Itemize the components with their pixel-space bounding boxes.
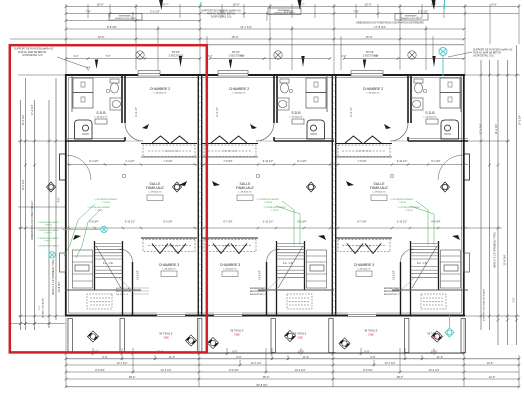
svg-text:2'-4 1/2": 2'-4 1/2" <box>125 160 134 163</box>
svg-text:L-19 20x17.5: L-19 20x17.5 <box>239 192 253 194</box>
svg-text:L-19 20x17.5: L-19 20x17.5 <box>149 192 163 194</box>
svg-text:DRAINS SOUS PATIO: DRAINS SOUS PATIO <box>115 17 136 20</box>
svg-text:(VOIR DETAIL S-5): (VOIR DETAIL S-5) <box>22 54 43 57</box>
unit 3 interior <box>334 75 468 318</box>
svg-text:CHAMBRE 3: CHAMBRE 3 <box>354 263 374 267</box>
unit top dim row (56 1/2 - 2 sections) <box>65 57 202 60</box>
svg-text:9'-6": 9'-6" <box>236 355 241 359</box>
dimension texts: top rows <box>85 2 497 39</box>
svg-text:28'-0": 28'-0" <box>129 375 136 379</box>
dimension scaffold: right columns <box>480 60 483 330</box>
svg-text:L-19 20x17.5: L-19 20x17.5 <box>95 116 109 118</box>
svg-text:9'-0": 9'-0" <box>232 349 237 353</box>
svg-text:24'-3 3/4": 24'-3 3/4" <box>519 115 522 125</box>
svg-text:1 lav. 12" + 1 lin.: 1 lav. 12" + 1 lin. <box>165 246 180 248</box>
svg-text:TYPE A: TYPE A <box>398 201 406 204</box>
svg-text:14'-7 1/2": 14'-7 1/2" <box>251 361 262 365</box>
svg-text:MEMBRANE +: MEMBRANE + <box>405 15 420 18</box>
svg-text:CME: CME <box>431 337 437 340</box>
svg-text:14'-7 1/2": 14'-7 1/2" <box>117 361 128 365</box>
green notes left margin <box>37 222 59 248</box>
room labels <box>95 87 438 271</box>
svg-text:CME: CME <box>368 334 374 337</box>
svg-text:12'-0": 12'-0" <box>489 375 496 379</box>
svg-text:11'-2 1/4": 11'-2 1/4" <box>21 115 25 126</box>
svg-text:11'-2 1/4": 11'-2 1/4" <box>494 124 498 135</box>
left wall lower window bay <box>60 253 66 272</box>
svg-text:11'-6": 11'-6" <box>303 355 309 359</box>
svg-text:5'-10 1/2": 5'-10 1/2" <box>125 221 136 224</box>
svg-text:8'-7 3/4": 8'-7 3/4" <box>357 221 366 224</box>
svg-text:15'-0": 15'-0" <box>231 35 238 39</box>
svg-text:1 lav. 12" + 1 lin.: 1 lav. 12" + 1 lin. <box>223 246 238 248</box>
svg-text:MUR 10'-6 1/2" (PANNEAU TYPE): MUR 10'-6 1/2" (PANNEAU TYPE) <box>52 259 55 294</box>
svg-text:13'-2 1/4": 13'-2 1/4" <box>161 368 172 372</box>
svg-text:8'-6 3/4": 8'-6 3/4" <box>95 368 105 372</box>
svg-text:CONTREVENTEMENT: CONTREVENTEMENT <box>37 246 59 248</box>
teal circle left margin <box>49 252 55 258</box>
svg-text:11'-2 1/4": 11'-2 1/4" <box>216 107 219 117</box>
svg-text:3'-0": 3'-0" <box>39 306 41 311</box>
svg-text:8'-6 3/4": 8'-6 3/4" <box>229 368 239 372</box>
svg-text:TYPE B: TYPE B <box>271 210 279 212</box>
dimension scaffold: bottom rows <box>65 352 201 355</box>
svg-text:CONTREVENTEMENT: CONTREVENTEMENT <box>95 199 118 201</box>
svg-text:11'-2 1/4": 11'-2 1/4" <box>350 107 353 117</box>
membrane label box left <box>109 14 142 21</box>
svg-text:2x4 @ 12" c/c: 2x4 @ 12" c/c <box>116 294 128 296</box>
green notes unit3 <box>410 201 434 245</box>
green notes unit1 <box>64 204 101 258</box>
bold marks: top <box>95 0 436 69</box>
svg-text:3'-2": 3'-2" <box>208 55 213 58</box>
svg-text:11'-7 1/4": 11'-7 1/4" <box>240 25 252 29</box>
circle-x markers below top wall <box>136 51 144 59</box>
right wall lower window bay <box>464 253 470 272</box>
svg-text:ENTRÉE D'EAU: ENTRÉE D'EAU <box>116 287 131 290</box>
svg-text:7'-8 3/4": 7'-8 3/4" <box>163 160 172 163</box>
svg-text:DIMENSIONS AUX FONDATIONS GSM: DIMENSIONS AUX FONDATIONS GSM FIXATION E… <box>356 22 424 25</box>
svg-text:S.D.B: S.D.B <box>96 111 106 115</box>
svg-text:SUPPORT DE FIXATION NaAlFe: SUPPORT DE FIXATION NaAlFe <box>483 288 486 321</box>
svg-text:S.A. C.B.: S.A. C.B. <box>417 262 428 265</box>
svg-text:8'-7 3/4": 8'-7 3/4" <box>223 221 232 224</box>
closet texts <box>165 151 372 248</box>
svg-text:8'-8 3/4": 8'-8 3/4" <box>89 221 98 224</box>
svg-text:CONTREVENTEMENT: CONTREVENTEMENT <box>398 207 421 209</box>
svg-text:8'-4 3/4": 8'-4 3/4" <box>431 160 440 163</box>
svg-text:28'-0": 28'-0" <box>263 375 270 379</box>
svg-text:8'-4 3/4": 8'-4 3/4" <box>89 160 98 163</box>
svg-text:13'-2 1/4": 13'-2 1/4" <box>429 368 440 372</box>
svg-text:9'-10 1/2": 9'-10 1/2" <box>263 160 274 163</box>
svg-text:MUR 10'-6 1/2" (PANNEAU TYPE): MUR 10'-6 1/2" (PANNEAU TYPE) <box>494 232 497 267</box>
entree eau texts <box>116 287 399 296</box>
svg-text:CONTREVENTEMENT: CONTREVENTEMENT <box>88 207 111 209</box>
svg-text:MEMBRANE +: MEMBRANE + <box>278 9 293 12</box>
vertical small dim texts inside units <box>135 107 396 280</box>
svg-text:11'-2 1/4": 11'-2 1/4" <box>135 107 138 117</box>
svg-text:3'-2": 3'-2" <box>342 55 347 58</box>
svg-text:CME: CME <box>297 337 303 340</box>
svg-text:9'-0": 9'-0" <box>364 349 369 353</box>
svg-text:L-19 20x17.5: L-19 20x17.5 <box>373 192 387 194</box>
svg-text:2 SECTIONS: 2 SECTIONS <box>169 54 184 57</box>
svg-text:98 7/8"±0.5': 98 7/8"±0.5' <box>364 330 378 333</box>
svg-text:7'-8": 7'-8" <box>106 55 111 58</box>
bottom dim texts <box>93 349 495 387</box>
svg-text:98 7/8"±0.5': 98 7/8"±0.5' <box>159 333 173 336</box>
svg-text:5'-6": 5'-6" <box>491 2 497 6</box>
svg-text:TYPE A: TYPE A <box>102 201 110 204</box>
svg-text:CONTREVENTEMENT: CONTREVENTEMENT <box>257 199 280 201</box>
bottom annotation texts (98 7/8) <box>159 330 441 340</box>
dim line under red top edge <box>207 44 464 46</box>
svg-text:ENTRÉE D'EAU: ENTRÉE D'EAU <box>250 287 265 290</box>
svg-text:CHAMBRE 2: CHAMBRE 2 <box>363 87 383 91</box>
svg-text:DRAINS SOUS PATIO: DRAINS SOUS PATIO <box>274 12 295 15</box>
svg-text:DEVANT ESCALIER: DEVANT ESCALIER <box>42 298 45 319</box>
left bottom dim line <box>10 322 65 325</box>
svg-text:8'-4 3/4": 8'-4 3/4" <box>297 160 306 163</box>
svg-text:TYPE B: TYPE B <box>405 210 413 212</box>
svg-text:9'-6": 9'-6" <box>370 355 375 359</box>
inner face lines of exterior walls <box>69 78 462 314</box>
svg-text:2'-0 1/2": 2'-0 1/2" <box>150 9 160 13</box>
svg-text:DRAINS SOUS PATIO: DRAINS SOUS PATIO <box>401 17 422 20</box>
note: support de fixation (top right) <box>473 49 513 58</box>
porch posts below bottom wall <box>68 319 72 353</box>
svg-text:FAMILIALE: FAMILIALE <box>146 186 164 190</box>
party wall 2 <box>332 75 335 316</box>
svg-text:S.D.B: S.D.B <box>425 111 435 115</box>
small triangle at leader end <box>87 67 91 71</box>
svg-text:98 7/8"±0.5': 98 7/8"±0.5' <box>427 333 441 336</box>
dimension scaffold: left columns <box>19 100 22 330</box>
svg-text:MUR PORTEUR: MUR PORTEUR <box>250 291 265 293</box>
svg-text:TYPE A: TYPE A <box>44 224 52 227</box>
party wall 1 <box>198 75 201 316</box>
svg-text:8'-6 3/4": 8'-6 3/4" <box>297 221 306 224</box>
svg-text:13'-2 1/4": 13'-2 1/4" <box>295 368 306 372</box>
svg-text:MEMBRANE +: MEMBRANE + <box>119 15 134 18</box>
svg-text:2x4 @ 12" c/c: 2x4 @ 12" c/c <box>250 294 262 296</box>
svg-text:13'-6 3/4": 13'-6 3/4" <box>503 254 507 265</box>
svg-text:7'-8 3/4": 7'-8 3/4" <box>223 160 232 163</box>
extension lines: top verticals <box>66 4 519 75</box>
stair labels <box>103 262 428 265</box>
svg-text:S.A. C.B.: S.A. C.B. <box>103 262 114 265</box>
svg-text:14'-7 1/2": 14'-7 1/2" <box>385 361 396 365</box>
dimension scaffold: extra top row <box>65 19 202 22</box>
svg-text:13'-8 3/4": 13'-8 3/4" <box>57 281 61 292</box>
svg-text:L-19 20x17.5: L-19 20x17.5 <box>424 116 438 118</box>
right wall upper door arc <box>438 155 463 180</box>
svg-text:TYPE A: TYPE A <box>264 201 272 204</box>
svg-text:2'-0 1/2": 2'-0 1/2" <box>418 9 428 13</box>
svg-text:9'-6": 9'-6" <box>58 197 61 202</box>
svg-text:10'-0": 10'-0" <box>364 2 371 6</box>
svg-text:11'-6": 11'-6" <box>169 355 175 359</box>
right extension lines <box>464 75 520 316</box>
svg-text:1 lav. 12" + 1 lin.: 1 lav. 12" + 1 lin. <box>223 151 238 153</box>
svg-text:2'-6": 2'-6" <box>513 297 516 302</box>
svg-text:8'-6 3/4": 8'-6 3/4" <box>363 368 373 372</box>
svg-text:98 7/8"±0.5': 98 7/8"±0.5' <box>230 330 244 333</box>
svg-text:7'-8": 7'-8" <box>374 55 379 58</box>
svg-text:10'-0 3/4": 10'-0 3/4" <box>393 270 396 280</box>
svg-text:17'-2 1/4": 17'-2 1/4" <box>30 104 34 115</box>
svg-text:10'-0": 10'-0" <box>232 2 239 6</box>
svg-text:1 lav. 12" + 1 lin.: 1 lav. 12" + 1 lin. <box>357 151 372 153</box>
right wall upper window bay <box>464 154 470 180</box>
svg-text:(VOIR DETAIL S-5): (VOIR DETAIL S-5) <box>211 16 232 19</box>
svg-text:DIMENSIONS AUX FONDATION EXT.: DIMENSIONS AUX FONDATION EXT. <box>31 200 34 240</box>
svg-text:L-19 20x17.5: L-19 20x17.5 <box>163 269 177 271</box>
membrane label box mid <box>268 8 301 15</box>
svg-text:1 lav. 12" + 1 lin.: 1 lav. 12" + 1 lin. <box>165 151 180 153</box>
party wall 1 hatch <box>198 77 201 314</box>
left wall upper window bay <box>60 154 66 180</box>
svg-text:9'-10 1/2": 9'-10 1/2" <box>397 160 408 163</box>
svg-text:17'-2 1/4": 17'-2 1/4" <box>479 123 483 134</box>
svg-text:7'-8": 7'-8" <box>240 55 245 58</box>
svg-text:CME: CME <box>163 337 169 340</box>
svg-text:3'-2": 3'-2" <box>74 55 79 58</box>
extension lines: additional top verticals <box>88 4 444 18</box>
svg-text:L-19 20x17.5: L-19 20x17.5 <box>358 269 372 271</box>
svg-text:L-19 20x17.5: L-19 20x17.5 <box>367 93 381 95</box>
room label boxes <box>147 195 387 277</box>
bottom extension lines <box>66 318 519 387</box>
svg-text:FAMILIALE: FAMILIALE <box>370 186 388 190</box>
svg-text:9'-7": 9'-7" <box>163 2 169 6</box>
svg-text:L-19 20x17.5: L-19 20x17.5 <box>154 93 168 95</box>
svg-text:28'-0": 28'-0" <box>397 375 404 379</box>
note: support de fixation (top left, inside red) <box>14 48 54 58</box>
small detector circles <box>106 89 427 178</box>
teal tick marks at party wall tops <box>201 0 445 9</box>
svg-text:1 lav. 12" + 1 lin.: 1 lav. 12" + 1 lin. <box>357 246 372 248</box>
left extension lines <box>18 75 66 316</box>
teal marker bottom right <box>445 315 454 337</box>
svg-text:CHAMBRE 2: CHAMBRE 2 <box>229 87 249 91</box>
party wall 2 hatch <box>332 77 335 314</box>
svg-text:84'-8 3/4": 84'-8 3/4" <box>257 383 268 387</box>
svg-text:(VOIR DETAIL S-5): (VOIR DETAIL S-5) <box>473 55 494 58</box>
salle diamonds <box>173 182 182 192</box>
membrane label box right <box>395 14 428 21</box>
svg-text:L-19 20x17.5: L-19 20x17.5 <box>224 269 238 271</box>
svg-text:TYPE B: TYPE B <box>44 233 52 235</box>
svg-text:10'-0": 10'-0" <box>96 2 103 6</box>
unit 1 interior (mirrored) <box>65 75 199 318</box>
svg-text:TYPE C: TYPE C <box>44 241 52 243</box>
svg-text:L-19 20x17.5: L-19 20x17.5 <box>233 93 247 95</box>
svg-text:CONTREVENTEMENT: CONTREVENTEMENT <box>264 207 287 209</box>
building outline walls <box>65 75 465 316</box>
svg-text:11'-6": 11'-6" <box>437 355 443 359</box>
svg-text:8'-8 3/4": 8'-8 3/4" <box>107 25 117 29</box>
svg-text:ENTRÉE D'EAU: ENTRÉE D'EAU <box>384 287 399 290</box>
svg-text:CHAMBRE 3: CHAMBRE 3 <box>220 263 240 267</box>
svg-text:8'-5 3/4": 8'-5 3/4" <box>163 221 172 224</box>
foundation anchor diamonds <box>87 331 98 342</box>
svg-text:98 7/8"±0.5': 98 7/8"±0.5' <box>293 333 307 336</box>
svg-text:10'-1 1/4": 10'-1 1/4" <box>21 179 25 190</box>
teal marker top right <box>439 48 447 77</box>
svg-text:9'-6": 9'-6" <box>102 355 107 359</box>
svg-text:10'-0 3/4": 10'-0 3/4" <box>259 270 262 280</box>
interior dimension texts <box>89 160 440 224</box>
left wall upper door arc <box>66 155 91 180</box>
red highlight rectangle <box>10 45 207 352</box>
svg-text:CONTREVENTEMENT: CONTREVENTEMENT <box>391 199 414 201</box>
dimension scaffold: top rows <box>65 5 521 8</box>
svg-text:8'-6 3/4": 8'-6 3/4" <box>431 221 440 224</box>
svg-text:S.A. C.B.: S.A. C.B. <box>283 262 294 265</box>
deck edge line <box>66 352 466 354</box>
leader: top-right note <box>448 52 472 57</box>
svg-text:CME: CME <box>234 334 240 337</box>
svg-text:L-19 20x17.5: L-19 20x17.5 <box>290 116 304 118</box>
left margin diamond tag <box>47 182 56 192</box>
svg-text:2x4 @ 12" c/c: 2x4 @ 12" c/c <box>384 294 396 296</box>
svg-text:MUR PORTEUR: MUR PORTEUR <box>116 291 131 293</box>
svg-text:2'-10 1/2": 2'-10 1/2" <box>263 221 274 224</box>
svg-text:10'-6": 10'-6" <box>487 361 494 365</box>
svg-text:CHAMBRE 3: CHAMBRE 3 <box>159 263 179 267</box>
green notes unit2 <box>276 201 300 245</box>
svg-text:17'-8 3/4": 17'-8 3/4" <box>374 25 386 29</box>
svg-text:10'-6": 10'-6" <box>97 35 104 39</box>
note: support de fixation (top mid) <box>201 10 241 19</box>
leader: top-left note <box>57 57 88 68</box>
svg-text:TYPE B: TYPE B <box>95 210 103 212</box>
svg-text:MUR PORTEUR: MUR PORTEUR <box>384 291 399 293</box>
svg-text:CHAMBRE 2: CHAMBRE 2 <box>150 87 170 91</box>
svg-text:S.D.B: S.D.B <box>291 111 301 115</box>
svg-text:10'-0 3/4": 10'-0 3/4" <box>137 270 140 280</box>
svg-text:15'-0": 15'-0" <box>365 35 372 39</box>
teal marker left <box>62 226 107 232</box>
svg-text:2'-10 1/2": 2'-10 1/2" <box>397 221 408 224</box>
unit 2 interior <box>200 75 334 318</box>
svg-text:FAMILIALE: FAMILIALE <box>236 186 254 190</box>
svg-text:7'-8 3/4": 7'-8 3/4" <box>357 160 366 163</box>
patio door openings on top wall <box>138 73 160 77</box>
